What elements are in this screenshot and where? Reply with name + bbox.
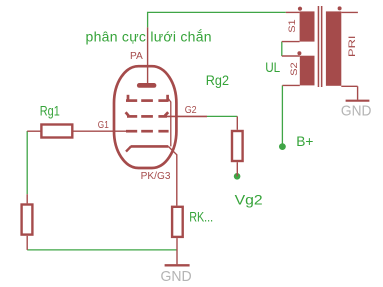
- svg-text:G2: G2: [185, 104, 197, 116]
- svg-text:Rg1: Rg1: [40, 103, 60, 119]
- svg-text:Vg2: Vg2: [235, 191, 263, 207]
- svg-text:PA: PA: [130, 51, 143, 62]
- svg-text:UL: UL: [265, 59, 280, 75]
- svg-text:PK/G3: PK/G3: [141, 171, 171, 182]
- svg-text:G1: G1: [98, 120, 109, 131]
- svg-text:S2: S2: [289, 62, 300, 76]
- svg-text:RK...: RK...: [189, 209, 213, 225]
- svg-text:B+: B+: [296, 133, 313, 149]
- svg-text:GND: GND: [341, 102, 372, 119]
- svg-text:S1: S1: [287, 19, 298, 33]
- svg-text:phân cực lưới chắn: phân cực lưới chắn: [86, 28, 212, 44]
- svg-text:GND: GND: [161, 268, 192, 285]
- svg-text:PRI: PRI: [347, 36, 358, 58]
- svg-text:Rg2: Rg2: [206, 73, 229, 88]
